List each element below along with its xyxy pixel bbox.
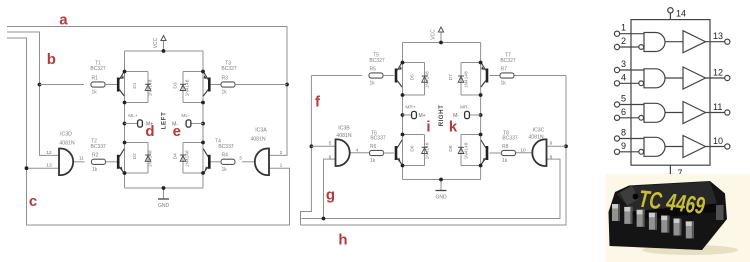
svg-text:a: a xyxy=(59,12,68,29)
op-amp AND gate cell pin 11 xyxy=(644,103,665,122)
node right bridge left rail y95 xyxy=(401,93,405,97)
op-amp IC3D 4081N gate xyxy=(59,149,73,176)
wire right bridge VCC rail xyxy=(403,42,481,44)
svg-text:BC337: BC337 xyxy=(370,136,386,142)
buffer triangle cell pin 12 xyxy=(665,67,706,89)
resistor R8 1k xyxy=(502,144,516,164)
pin 6 xyxy=(614,115,643,120)
op-amp AND gate cell pin 13 xyxy=(644,33,665,52)
TC4469 pinout diagram box xyxy=(631,20,710,166)
node f-pin5 junction xyxy=(310,144,314,148)
wire left bridge VCC rail xyxy=(125,50,204,52)
svg-text:MR-: MR- xyxy=(460,105,469,111)
svg-text:ML+: ML+ xyxy=(128,113,138,119)
svg-text:4: 4 xyxy=(356,148,359,154)
diode D6 1N4148 xyxy=(403,135,428,166)
wire right bridge left rail xyxy=(402,43,404,180)
svg-text:VCC: VCC xyxy=(153,37,159,48)
svg-text:LEFT: LEFT xyxy=(161,112,168,129)
svg-text:IC3A: IC3A xyxy=(255,128,267,134)
wire IC3B out to R6 xyxy=(349,152,370,154)
node GND-rail junction left xyxy=(162,186,166,190)
svg-text:8: 8 xyxy=(621,128,626,138)
node right rail y102.5 xyxy=(201,101,205,105)
node right rail y173 xyxy=(201,171,205,175)
chip pins xyxy=(612,204,620,221)
svg-text:1k: 1k xyxy=(370,81,376,87)
svg-text:d: d xyxy=(145,123,154,140)
connector MR+ xyxy=(412,111,417,118)
wire R7 to node h xyxy=(514,75,566,77)
svg-text:IC3B: IC3B xyxy=(338,126,350,132)
svg-text:1k: 1k xyxy=(501,81,507,87)
svg-text:1N4148: 1N4148 xyxy=(185,150,191,167)
svg-text:BC327: BC327 xyxy=(221,66,237,72)
pin 10 xyxy=(706,144,730,149)
transistor T7 BC327 xyxy=(481,63,488,88)
node right rail y142.5 xyxy=(201,141,205,145)
svg-text:1k: 1k xyxy=(502,158,508,164)
svg-text:13: 13 xyxy=(46,163,52,169)
power VCC right bridge xyxy=(438,27,443,43)
node left rail y123.5 xyxy=(123,122,127,126)
svg-text:R4: R4 xyxy=(222,153,229,159)
svg-text:R7: R7 xyxy=(501,66,508,72)
pin 1 xyxy=(614,31,644,36)
pin 14 xyxy=(668,8,673,20)
wire left bridge bottom rail xyxy=(125,187,204,189)
connector ML- xyxy=(186,120,191,127)
node c-pin13 junction xyxy=(25,166,29,170)
wire R2 to T2 base xyxy=(106,161,118,163)
svg-text:R5: R5 xyxy=(370,66,377,72)
svg-text:1k: 1k xyxy=(370,158,376,164)
resistor R6 1k xyxy=(370,144,384,164)
diode D5 1N4148 xyxy=(403,63,428,96)
svg-text:1N4148: 1N4148 xyxy=(425,142,431,159)
chip front face xyxy=(633,204,719,221)
svg-text:1k: 1k xyxy=(92,167,98,173)
node right bridge left rail y134.5 xyxy=(401,133,405,137)
svg-text:2: 2 xyxy=(280,150,283,156)
resistor R4 1k xyxy=(221,153,235,173)
node VCC-rail junction right xyxy=(439,41,443,45)
wire h xyxy=(301,76,567,226)
node left rail y142.5 xyxy=(123,141,127,145)
diode D2 1N4148 xyxy=(125,143,151,174)
svg-text:R6: R6 xyxy=(370,144,377,150)
svg-text:6: 6 xyxy=(329,155,332,161)
svg-text:1: 1 xyxy=(621,23,626,33)
svg-text:1k: 1k xyxy=(222,90,228,96)
node right rail y123.5 xyxy=(201,122,205,126)
chip top face sheen xyxy=(620,186,639,206)
transistor T8 BC337 xyxy=(481,140,488,165)
svg-text:b: b xyxy=(47,51,56,68)
svg-text:1N4148: 1N4148 xyxy=(464,71,470,88)
op-amp AND gate cell pin 12 xyxy=(644,69,665,88)
node g-pin6 junction xyxy=(322,217,326,221)
wire R8 to T8 base xyxy=(490,152,502,154)
svg-text:12: 12 xyxy=(713,68,723,78)
wire IC3B pin6 to g xyxy=(324,159,336,218)
TC4469 chip photo background xyxy=(606,174,750,262)
svg-text:IC3D: IC3D xyxy=(60,132,72,138)
svg-text:10: 10 xyxy=(713,136,723,146)
svg-text:R1: R1 xyxy=(92,75,99,81)
wire to MR+ pad xyxy=(403,114,412,116)
svg-text:R2: R2 xyxy=(92,153,99,159)
svg-text:BC337: BC337 xyxy=(91,144,107,150)
svg-text:1N4148: 1N4148 xyxy=(185,79,191,96)
wire R3 to node a xyxy=(235,84,287,86)
op-amp IC3A 4081N gate xyxy=(255,149,269,176)
svg-text:ML-: ML- xyxy=(181,113,190,119)
svg-text:D5: D5 xyxy=(410,74,416,80)
resistor R2 1k xyxy=(92,153,106,173)
svg-text:8: 8 xyxy=(550,155,553,161)
resistor R3 1k xyxy=(221,75,235,95)
svg-text:R3: R3 xyxy=(222,75,229,81)
wire to ML+ pad xyxy=(125,123,138,125)
buffer triangle cell pin 10 xyxy=(665,136,706,158)
buffer triangle cell pin 13 xyxy=(665,31,706,53)
node b-R1 junction xyxy=(38,83,42,87)
svg-text:D8: D8 xyxy=(448,145,454,151)
wire IC3D pin13 input xyxy=(27,167,60,169)
svg-text:M+: M+ xyxy=(418,113,425,119)
svg-text:GND: GND xyxy=(435,195,447,201)
chip shadow xyxy=(642,245,738,255)
resistor R1 1k xyxy=(91,75,105,95)
pin 9 xyxy=(614,149,643,154)
svg-text:RIGHT: RIGHT xyxy=(438,105,445,127)
node right bridge left rail y115 xyxy=(401,113,405,117)
node right bridge right rail y115 xyxy=(479,113,483,117)
pin 7 xyxy=(666,165,675,174)
svg-text:VCC: VCC xyxy=(431,29,437,40)
svg-text:1N4148: 1N4148 xyxy=(425,71,431,88)
transistor T1 BC327 xyxy=(117,72,124,97)
svg-text:5: 5 xyxy=(621,94,626,104)
svg-text:i: i xyxy=(426,119,430,136)
svg-text:1k: 1k xyxy=(222,167,228,173)
node right bridge left rail y165.5 xyxy=(401,164,405,168)
diode D8 1N4148 xyxy=(458,135,481,166)
pin 11 xyxy=(706,110,730,115)
svg-text:c: c xyxy=(29,193,37,210)
svg-text:14: 14 xyxy=(676,9,686,19)
svg-text:BC327: BC327 xyxy=(369,58,385,64)
svg-text:4081N: 4081N xyxy=(528,135,544,141)
wire a : input to T3 base / IC3A pin2 xyxy=(7,27,287,156)
svg-text:1N4148: 1N4148 xyxy=(464,142,470,159)
svg-text:1k: 1k xyxy=(92,90,98,96)
chip notch xyxy=(633,194,639,200)
svg-text:1N4148: 1N4148 xyxy=(148,150,154,167)
wire to MR- pad xyxy=(470,114,481,116)
node right bridge right rail y165.5 xyxy=(479,164,483,168)
node h-pin9 junction xyxy=(564,144,568,148)
node right rail y71.5 xyxy=(201,70,205,74)
wire IC3C pin9 input xyxy=(547,145,567,147)
ground right bridge xyxy=(436,180,447,191)
svg-text:D1: D1 xyxy=(132,82,138,88)
wire R1 to T1 base xyxy=(105,84,117,86)
svg-text:R8: R8 xyxy=(502,144,509,150)
wire R4 to T4 base xyxy=(210,161,221,163)
node GND-rail junction right xyxy=(439,178,443,182)
wire f vertical to h xyxy=(301,76,312,226)
svg-text:4081N: 4081N xyxy=(336,133,352,139)
wire left bridge left rail xyxy=(124,51,126,188)
connector ML+ xyxy=(138,120,143,127)
svg-text:D7: D7 xyxy=(448,74,454,80)
svg-text:IC3C: IC3C xyxy=(533,128,545,134)
svg-text:D2: D2 xyxy=(132,153,138,159)
svg-text:3: 3 xyxy=(621,59,626,69)
resistor R7 1k xyxy=(500,66,514,86)
svg-text:10: 10 xyxy=(520,148,526,154)
chip right end pin xyxy=(716,205,724,220)
svg-text:12: 12 xyxy=(46,150,52,156)
transistor T3 BC327 xyxy=(203,72,210,97)
node a-R3 junction xyxy=(285,83,289,87)
op-amp AND gate cell pin 10 xyxy=(644,137,665,156)
wire T3 base to R3 xyxy=(210,84,221,86)
svg-text:D4: D4 xyxy=(173,153,179,159)
power VCC left bridge xyxy=(161,36,166,52)
wire IC3B pin5 input xyxy=(311,145,335,147)
svg-text:9: 9 xyxy=(621,141,626,151)
node left rail y173 xyxy=(123,171,127,175)
wire g : IC3B pin6 / IC3C pin8 xyxy=(302,159,561,218)
ground left bridge xyxy=(158,188,169,199)
transistor T2 BC337 xyxy=(117,149,124,174)
pin 3 xyxy=(614,67,644,72)
diode D1 1N4148 xyxy=(125,72,151,103)
svg-text:9: 9 xyxy=(550,141,553,147)
node right bridge right rail y95 xyxy=(479,93,483,97)
svg-text:1: 1 xyxy=(280,163,283,169)
connector MR- xyxy=(465,111,470,118)
node left rail y102.5 xyxy=(123,101,127,105)
op-amp IC3B 4081N gate xyxy=(336,139,350,166)
svg-text:6: 6 xyxy=(621,107,626,117)
transistor T5 BC327 xyxy=(395,63,402,88)
resistor R5 1k xyxy=(369,66,383,86)
wire IC3D out to R2 xyxy=(73,161,85,163)
node right bridge left rail y62.5 xyxy=(401,61,405,65)
wire IC3A out to R4 xyxy=(242,161,256,163)
diode D3 1N4148 xyxy=(180,72,203,103)
wire left bridge right rail xyxy=(202,51,204,188)
svg-text:4081N: 4081N xyxy=(59,140,75,146)
node right bridge right rail y134.5 xyxy=(479,133,483,137)
pin 13 xyxy=(706,39,730,44)
wire f to R5 xyxy=(311,75,362,77)
transistor T6 BC337 xyxy=(395,140,402,165)
node right bridge right rail y62.5 xyxy=(479,61,483,65)
wire R6 to T6 base xyxy=(383,152,394,154)
pin 4 xyxy=(614,81,643,86)
svg-text:k: k xyxy=(449,119,458,136)
pin 5 xyxy=(614,102,644,107)
svg-text:e: e xyxy=(173,123,181,140)
pin 12 xyxy=(706,75,730,80)
wire b to R1 xyxy=(40,84,85,86)
wire right bridge right rail xyxy=(480,43,482,180)
buffer triangle cell pin 11 xyxy=(665,102,706,124)
svg-text:g: g xyxy=(326,187,335,204)
svg-text:4081N: 4081N xyxy=(250,137,266,143)
svg-text:f: f xyxy=(315,94,321,111)
svg-text:BC327: BC327 xyxy=(90,66,106,72)
svg-text:4: 4 xyxy=(621,72,626,82)
svg-text:13: 13 xyxy=(713,31,723,41)
svg-text:BC327: BC327 xyxy=(500,58,516,64)
svg-text:3: 3 xyxy=(239,156,242,162)
svg-text:h: h xyxy=(338,232,347,249)
op-amp IC3C 4081N gate xyxy=(532,139,546,166)
svg-text:1N4148: 1N4148 xyxy=(148,79,154,96)
wire IC3C out to R8 xyxy=(516,152,534,154)
wire right bridge bottom rail xyxy=(403,179,481,181)
wire c : input to IC3D pin13 / IC3A pin1 xyxy=(7,38,290,225)
chip body silhouette xyxy=(609,181,728,250)
svg-text:GND: GND xyxy=(158,203,170,209)
svg-text:11: 11 xyxy=(79,156,84,162)
wire b : input to T1 base / IC3D pin12 xyxy=(7,32,59,155)
chip label TC 4469 xyxy=(637,186,706,220)
wire R5 to T5 base xyxy=(383,75,394,77)
pin 2 xyxy=(614,44,643,49)
svg-text:BC337: BC337 xyxy=(218,144,234,150)
wire to ML- pad xyxy=(191,123,203,125)
wire T7 base to R7 xyxy=(490,75,501,77)
diode D7 1N4148 xyxy=(458,63,481,96)
svg-text:11: 11 xyxy=(713,102,722,112)
pin 8 xyxy=(614,136,644,141)
svg-text:2: 2 xyxy=(621,36,626,46)
svg-text:MR+: MR+ xyxy=(405,105,415,111)
svg-text:BC337: BC337 xyxy=(502,136,518,142)
chip top face xyxy=(617,182,718,212)
transistor T4 BC337 xyxy=(203,149,210,174)
node VCC-rail junction left xyxy=(162,49,166,53)
node left rail y71.5 xyxy=(123,70,127,74)
diode D4 1N4148 xyxy=(180,143,203,174)
svg-text:D6: D6 xyxy=(410,145,416,151)
svg-text:5: 5 xyxy=(329,141,332,147)
svg-text:D3: D3 xyxy=(173,82,179,88)
